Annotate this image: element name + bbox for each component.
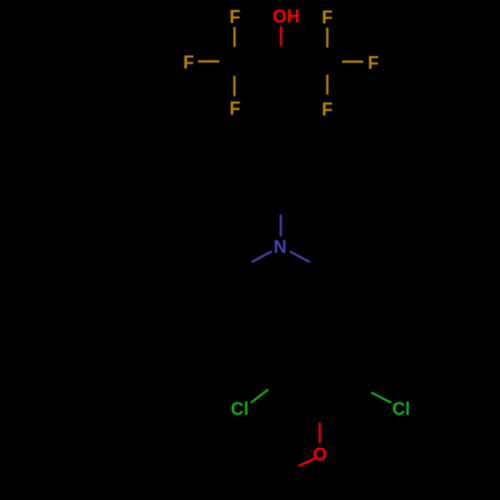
svg-text:O: O bbox=[313, 444, 327, 464]
svg-text:F: F bbox=[230, 7, 241, 27]
bond C2-F5 (right) bbox=[343, 60, 363, 62]
bond C3-OH bbox=[280, 27, 282, 45]
bond ringC-O (methoxy, up) bbox=[319, 424, 321, 443]
bond C2-F6 (down) bbox=[326, 75, 328, 93]
svg-text:F: F bbox=[322, 100, 333, 120]
bond ringC-Cl left bbox=[252, 390, 268, 402]
bond ringC-Cl right bbox=[372, 393, 390, 403]
svg-text:F: F bbox=[230, 99, 241, 119]
bond C2-F4 (top-right CF3, up) bbox=[326, 29, 328, 47]
bond O-CH3 (methoxy, down-left) bbox=[299, 459, 314, 466]
svg-text:Cl: Cl bbox=[392, 399, 410, 419]
svg-text:F: F bbox=[322, 7, 333, 27]
svg-text:F: F bbox=[368, 53, 379, 73]
bond N-CH2 left bbox=[253, 252, 272, 262]
bond C1-F2 (left) bbox=[199, 60, 219, 62]
svg-text:Cl: Cl bbox=[231, 399, 249, 419]
bond ringC-N (vertical above N) bbox=[280, 216, 282, 236]
svg-text:F: F bbox=[183, 53, 194, 73]
svg-text:OH: OH bbox=[273, 7, 300, 27]
bond C1-F1 (top-left CF3, up) bbox=[233, 28, 235, 46]
svg-text:N: N bbox=[274, 237, 287, 257]
bond N-CH2 right bbox=[291, 252, 310, 262]
bond C1-F3 (down) bbox=[233, 77, 235, 96]
